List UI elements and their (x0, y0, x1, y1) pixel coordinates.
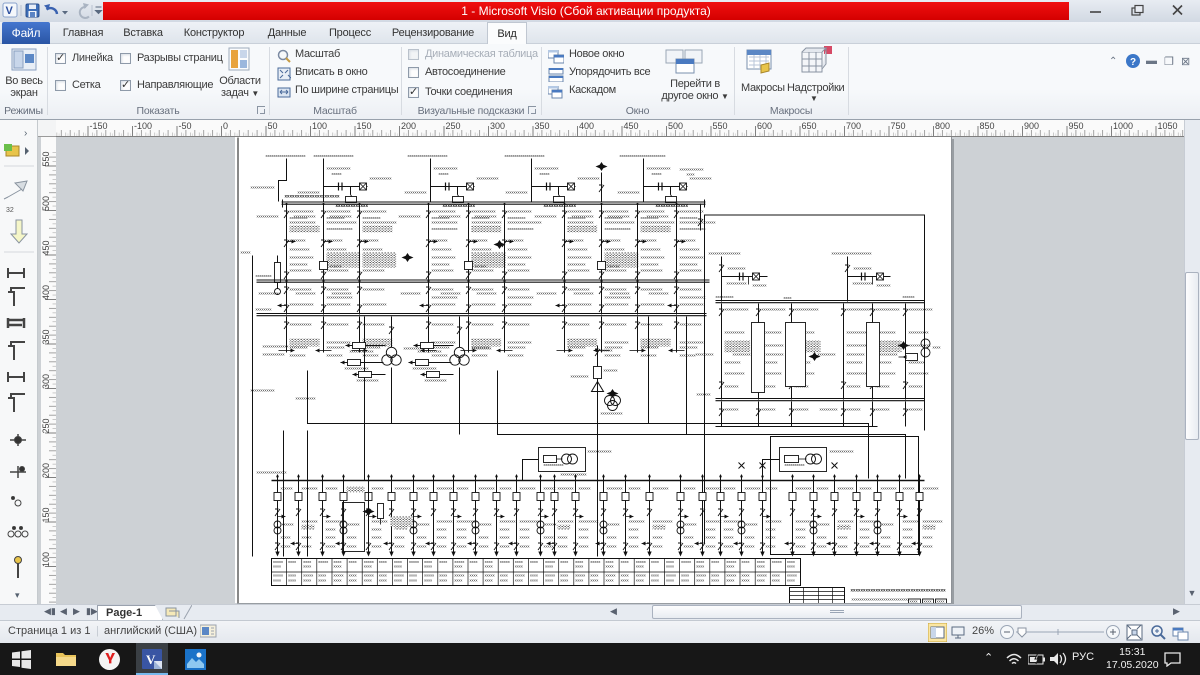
arrester FV2 (402, 253, 414, 262)
outgoing feeder B28 (896, 475, 919, 557)
svg-text:xxxxxxxxxxxxxxxxxxxx: xxxxxxxxxxxxxxxxxxxx (408, 153, 448, 158)
subsystem capacitor branch 1 (719, 257, 768, 302)
arrester FV6 (898, 341, 910, 350)
svg-text:xxxxxxxxx: xxxxxxxxx (508, 262, 526, 267)
subsystem feeder S3 (818, 304, 871, 400)
svg-text:xxxxxxxxxxxxx: xxxxxxxxxxxxx (680, 226, 706, 231)
wire (368, 475, 370, 507)
svg-text:xxxxxxxxxx: xxxxxxxxxx (432, 247, 452, 252)
svg-text:xxxxxx: xxxxxx (348, 522, 360, 527)
svg-text:xxxxxxx: xxxxxxx (847, 384, 861, 389)
subsystem lower feeder SL1 (756, 402, 776, 427)
svg-text:xxxxxxxxxxx: xxxxxxxxxxx (290, 268, 312, 273)
feeder F31 below bus3 (316, 317, 351, 358)
svg-text:xxxx: xxxx (439, 578, 447, 583)
svg-text:xxxx: xxxx (666, 578, 674, 583)
svg-text:xxxxxxxx: xxxxxxxx (472, 353, 488, 358)
feeder F30 below bus3 (279, 317, 320, 358)
svg-text:xxxxx: xxxxx (745, 535, 755, 540)
svg-text:xxxxx: xxxxx (653, 544, 663, 549)
svg-text:xxxxxxxx: xxxxxxxx (881, 486, 897, 491)
svg-text:xxxxxxxxxxxx: xxxxxxxxxxxx (830, 449, 854, 454)
svg-text:xxxxxxxx: xxxxxxxx (605, 238, 621, 243)
svg-text:xxxxx: xxxxx (409, 559, 419, 564)
svg-text:xxxxx: xxxxx (903, 544, 913, 549)
svg-text:xxxxxxxxxxxxxxx: xxxxxxxxxxxxxxx (472, 220, 502, 225)
svg-text:xxxxx: xxxxx (724, 527, 734, 532)
svg-text:0: 0 (223, 121, 228, 131)
svg-text:xxxxxx: xxxxxx (579, 486, 591, 491)
outgoing feeder B23 (785, 475, 816, 557)
svg-text:xxxxxxxxxxx: xxxxxxxxxxx (477, 176, 499, 181)
svg-text:xxxxxxxxxxx: xxxxxxxxxxx (508, 268, 530, 273)
svg-text:xxxx: xxxx (757, 564, 765, 569)
svg-text:xxxxx: xxxxx (766, 527, 776, 532)
capacitor bank CB2 (405, 159, 499, 209)
svg-text:xxxxx: xxxxx (652, 171, 662, 176)
svg-text:xxxxxxxx: xxxxxxxx (903, 519, 919, 524)
svg-text:xxxx: xxxx (318, 578, 326, 583)
svg-text:xxxxxxxxxxxx: xxxxxxxxxxxx (434, 166, 458, 171)
svg-text:xxxxx: xxxxx (772, 559, 782, 564)
bottom bus 0.4kV (272, 480, 925, 482)
svg-text:xxxxxxxx: xxxxxxxx (508, 353, 524, 358)
svg-text:xxxxx: xxxxx (724, 535, 734, 540)
svg-text:xxxxx: xxxxx (681, 559, 691, 564)
svg-text:xxxxxxxxxxxxx: xxxxxxxxxxxxx (508, 226, 534, 231)
big cell frame right (771, 437, 919, 555)
svg-text:xxxxxxxxx: xxxxxxxxx (766, 352, 784, 357)
outgoing feeder B15 (596, 475, 623, 557)
svg-text:xxxxxxxx: xxxxxxxx (508, 238, 524, 243)
svg-text:400: 400 (41, 285, 51, 300)
svg-text:xxxxx: xxxxx (903, 527, 913, 532)
title block (790, 588, 845, 604)
svg-text:xxxxxxxxxxx: xxxxxxxxxxx (568, 268, 590, 273)
feeder F39 below bus3 (669, 317, 704, 358)
svg-text:xxxxxxxxxxx: xxxxxxxxxxx (568, 322, 590, 327)
svg-text:?: ? (1130, 57, 1136, 68)
svg-text:xxxxxxxx: xxxxxxxx (437, 519, 453, 524)
svg-text:xxxx: xxxx (681, 578, 689, 583)
svg-text:xxxx: xxxx (424, 564, 432, 569)
svg-text:xxxxxxxx: xxxxxxxx (568, 353, 584, 358)
svg-text:xxxxxxxxxxxxx: xxxxxxxxxxxxx (432, 226, 458, 231)
transformer T2 branches (409, 317, 463, 383)
svg-text:xxxxx: xxxxx (318, 559, 328, 564)
svg-text:xxxxxxxxxxxx: xxxxxxxxxxxx (251, 185, 275, 190)
svg-text:250: 250 (446, 121, 461, 131)
svg-text:xxxxxxxxxx: xxxxxxxxxx (785, 462, 805, 467)
svg-text:xxxxxxxxx: xxxxxxxxx (568, 345, 586, 350)
svg-text:xxxxxx: xxxxxx (372, 486, 384, 491)
svg-text:xxxxxxxxxxx: xxxxxxxxxxx (641, 268, 663, 273)
svg-text:xxxxxxxx: xxxxxxxx (706, 486, 722, 491)
Визуальные подсказки (408, 49, 419, 60)
svg-text:xxxxx: xxxxx (860, 527, 870, 532)
svg-text:xxxx: xxxx (742, 578, 750, 583)
svg-text:xxxxxx: xxxxxx (500, 486, 512, 491)
svg-text:xxxxxxxxxxxxx: xxxxxxxxxxxxx (327, 226, 353, 231)
Режимы (11, 47, 37, 73)
outgoing feeder B1 (291, 475, 318, 557)
svg-text:xxxxxxx: xxxxxxx (876, 407, 890, 412)
svg-text:xxxxx: xxxxx (653, 535, 663, 540)
outgoing feeder B8 (450, 475, 477, 557)
feeder F36 below bus3 (557, 317, 598, 358)
svg-text:xxxx: xxxx (726, 564, 734, 569)
svg-text:xxxxxxxxxxx: xxxxxxxxxxx (535, 214, 557, 219)
svg-text:xxxxxxxxxxx: xxxxxxxxxxx (680, 322, 702, 327)
svg-text:xxxxx: xxxxx (372, 544, 382, 549)
svg-text:650: 650 (802, 121, 817, 131)
svg-text:xxxxxxxxxx: xxxxxxxxxx (853, 281, 873, 286)
svg-text:xxxxxxxxxxxx: xxxxxxxxxxxx (290, 255, 314, 260)
outgoing feeder B22 (759, 463, 782, 557)
svg-text:xxxxx: xxxxx (590, 559, 600, 564)
svg-text:xxxxxxxxxxxx: xxxxxxxxxxxx (432, 302, 456, 307)
svg-text:xxxxxxxxxxxxxxxxx: xxxxxxxxxxxxxxxxx (641, 220, 675, 225)
svg-text:xxxxxxxxx: xxxxxxxxx (641, 262, 659, 267)
svg-text:xxxxxxxx: xxxxxxxx (838, 519, 854, 524)
svg-text:xxxxxxxxxxxx: xxxxxxxxxxxx (345, 366, 369, 371)
svg-text:xxxxxxxxxxxx: xxxxxxxxxxxx (647, 166, 671, 171)
feeder F18 from bus1 (608, 203, 675, 282)
svg-text:xxxxxxxx: xxxxxxxx (706, 519, 722, 524)
svg-text:xxxx: xxxx (379, 559, 387, 564)
svg-text:xxxxxxxx: xxxxxxxx (629, 519, 645, 524)
svg-text:xxxxxxxxxxx: xxxxxxxxxxx (294, 214, 316, 219)
svg-text:xxxx: xxxx (364, 564, 372, 569)
svg-text:xxxxx: xxxxx (437, 544, 447, 549)
svg-text:xxxx: xxxx (349, 559, 357, 564)
svg-text:xxxxxxxxxxx: xxxxxxxxxxx (572, 214, 594, 219)
group separators (47, 47, 48, 115)
Показать (55, 53, 66, 64)
svg-text:xxxxx: xxxxx (372, 535, 382, 540)
svg-text:xxxxxxxxx: xxxxxxxxx (290, 345, 308, 350)
svg-text:xxxx: xxxx (590, 578, 598, 583)
svg-text:xxxxxxxxxx: xxxxxxxxxx (574, 291, 594, 296)
svg-text:xxxx: xxxx (379, 578, 387, 583)
svg-text:xxxxxxxx: xxxxxxxx (302, 486, 318, 491)
svg-text:xxxxxxxxxxxxxxxxxxxxxx: xxxxxxxxxxxxxxxxxxxxxx (285, 194, 341, 199)
svg-text:xxxxxxxxxxxxx: xxxxxxxxxxxxx (432, 220, 458, 225)
svg-text:xxxxxxx: xxxxxxx (725, 384, 739, 389)
svg-text:xxxxxxxxxxxx: xxxxxxxxxxxx (680, 302, 704, 307)
svg-text:xxxxxx: xxxxxx (326, 486, 338, 491)
feeder F24 bus2-bus3 (441, 283, 496, 315)
subsystem feeder S2 (766, 304, 821, 400)
svg-text:300: 300 (490, 121, 505, 131)
outgoing feeder B2 (319, 475, 346, 557)
svg-text:xxxx: xxxx (530, 559, 538, 564)
svg-text:400: 400 (579, 121, 594, 131)
svg-text:xxxxxxxxx: xxxxxxxxx (847, 352, 865, 357)
svg-text:xxxxxxxxxxx: xxxxxxxxxxx (618, 190, 640, 195)
svg-text:xxxx: xxxx (696, 564, 704, 569)
svg-text:xxxxx: xxxxx (520, 527, 530, 532)
outgoing feeder B21 (734, 463, 761, 557)
svg-text:xxxxx: xxxxx (629, 544, 639, 549)
svg-text:xxxxxxxxxxx: xxxxxxxxxxx (578, 176, 600, 181)
outgoing feeder B16 (622, 475, 645, 557)
svg-text:xxxxxxxxxxxx: xxxxxxxxxxxx (535, 166, 559, 171)
stamp boxes (909, 599, 921, 604)
svg-text:xxxxxxxxxx: xxxxxxxxxx (605, 247, 625, 252)
svg-text:xxxxx: xxxxx (500, 527, 510, 532)
svg-text:xxxxxx: xxxxxx (281, 486, 293, 491)
svg-text:xxxx: xxxx (515, 578, 523, 583)
svg-text:xxxxxxxxxxxx: xxxxxxxxxxxx (909, 307, 933, 312)
svg-text:xxxxxxxxxx: xxxxxxxxxx (680, 247, 700, 252)
shapes sidebar (0, 120, 38, 604)
subsystem lower feeder SL2 (789, 402, 809, 427)
surge arrester FV1 (596, 162, 608, 202)
arrester FV7 (363, 507, 375, 516)
svg-text:xxxxxx: xxxxxx (475, 264, 487, 269)
svg-text:xxxxxxxx: xxxxxxxx (432, 238, 448, 243)
svg-text:xxxxxxxxxxx: xxxxxxxxxxx (601, 411, 623, 416)
svg-text:xxxxxxxxxx: xxxxxxxxxx (508, 247, 528, 252)
svg-text:xxxxx: xxxxx (540, 171, 550, 176)
svg-text:xxxxxxxxxxx: xxxxxxxxxxx (425, 378, 447, 383)
svg-text:xxxxxxxxx: xxxxxxxxx (854, 266, 872, 271)
svg-text:xxxxx: xxxxx (745, 544, 755, 549)
svg-text:xxxxx: xxxxx (500, 535, 510, 540)
Окно (548, 50, 564, 64)
svg-text:xxxxx: xxxxx (457, 535, 467, 540)
svg-text:xxxxx: xxxxx (579, 527, 589, 532)
svg-text:xxxxxxx: xxxxxxx (909, 384, 923, 389)
left verticals (283, 431, 285, 557)
svg-text:xxxxx: xxxxx (706, 544, 716, 549)
svg-text:xxxx: xxxx (515, 564, 523, 569)
svg-text:xxxxxxxx: xxxxxxxx (745, 486, 761, 491)
bus 3 (10kV section II) (257, 314, 707, 316)
svg-text:xxxxxxxxxx: xxxxxxxxxx (290, 247, 310, 252)
svg-text:xxxxxxxxxxxx: xxxxxxxxxxxx (680, 255, 704, 260)
svg-text:xxxxx: xxxxx (706, 535, 716, 540)
svg-text:xxxxxxxxxxx: xxxxxxxxxxx (641, 322, 663, 327)
svg-text:350: 350 (41, 329, 51, 344)
feeder F28 bus2-bus3 (610, 283, 665, 315)
scrollbars (1184, 120, 1200, 612)
svg-text:xxxxxxxxxx: xxxxxxxxxx (332, 291, 352, 296)
svg-text:xxxxxxxxxxx: xxxxxxxxxxx (847, 343, 869, 348)
svg-text:850: 850 (980, 121, 995, 131)
svg-text:xxxxxxx: xxxxxxx (604, 368, 618, 373)
QAT icons (0, 0, 110, 22)
svg-text:xxxxxxxxxx: xxxxxxxxxx (537, 291, 557, 296)
svg-text:200: 200 (401, 121, 416, 131)
svg-text:xxxxxxxxxxx: xxxxxxxxxxx (399, 214, 421, 219)
svg-text:xxxx: xxxx (454, 578, 462, 583)
outgoing feeder B20 (717, 475, 744, 557)
svg-text:xxxxx: xxxxx (629, 527, 639, 532)
svg-text:xxxx: xxxx (787, 564, 795, 569)
Масштаб (277, 49, 291, 63)
svg-text:350: 350 (535, 121, 550, 131)
subsystem lower feeder SL3 (841, 402, 861, 427)
svg-text:xxxxxxxxx: xxxxxxxxx (571, 374, 589, 379)
svg-text:xxxxxxxxxxx: xxxxxxxxxxx (508, 287, 530, 292)
svg-text:xxxxxxxxxxxx: xxxxxxxxxxxx (350, 349, 374, 354)
wire x364 (364, 317, 366, 481)
svg-text:xxxxx: xxxxx (838, 544, 848, 549)
subsystem feeder S0 (696, 304, 751, 400)
feeder F29 bus2-bus3 (649, 283, 706, 315)
svg-text:xxxxxxxxxxxxxxxxxxxxxxxxxxxxx: xxxxxxxxxxxxxxxxxxxxxxxxxxxxx (852, 597, 910, 602)
svg-text:450: 450 (41, 240, 51, 255)
svg-text:xxxxx: xxxxx (923, 544, 933, 549)
svg-text:xxxxxxxxxxxxx: xxxxxxxxxxxxx (605, 226, 631, 231)
svg-text:xxxxx: xxxxx (347, 544, 357, 549)
svg-text:xxxxx: xxxxx (326, 527, 336, 532)
svg-text:xxxxx: xxxxx (579, 544, 589, 549)
svg-text:xxxx: xxxx (409, 578, 417, 583)
outgoing feeder B3 (336, 475, 363, 557)
svg-text:xxxxxxxxxxxx: xxxxxxxxxxxx (795, 307, 819, 312)
transformer T1 branches (341, 317, 395, 383)
svg-text:500: 500 (668, 121, 683, 131)
svg-text:xxxxxxxxxx: xxxxxxxxxx (909, 330, 929, 335)
svg-text:700: 700 (846, 121, 861, 131)
svg-text:xxxxxxxxx: xxxxxxxxx (327, 345, 345, 350)
svg-text:xxxx: xxxx (334, 564, 342, 569)
svg-text:xxxxxxxxxx: xxxxxxxxxx (472, 346, 492, 351)
svg-text:xxxx: xxxx (910, 599, 918, 603)
svg-text:xxxxxxxx: xxxxxxxx (472, 238, 488, 243)
wire x648 (648, 317, 650, 424)
subsystem bus B (716, 398, 925, 400)
svg-text:xxxxxx: xxxxxx (629, 486, 641, 491)
feeder F12 from bus1 (330, 203, 397, 282)
svg-text:xxxxxxxxx: xxxxxxxxx (696, 352, 714, 357)
svg-text:xxxxxxxxxx: xxxxxxxxxx (441, 291, 461, 296)
svg-text:xxxxxxxxxxxx: xxxxxxxxxxxx (432, 255, 456, 260)
svg-text:xxxx: xxxx (696, 578, 704, 583)
svg-text:200: 200 (41, 463, 51, 478)
svg-text:xxxx: xxxx (288, 578, 296, 583)
svg-text:xxxxx: xxxxx (500, 559, 510, 564)
svg-text:xxxxxxxxxxx: xxxxxxxxxxx (327, 322, 349, 327)
svg-text:xxxx: xxxx (303, 564, 311, 569)
feeder F33 below bus3 (421, 317, 456, 358)
svg-text:xxxx: xxxx (711, 578, 719, 583)
taskbar (0, 643, 1200, 675)
svg-text:xxxx: xxxx (439, 559, 447, 564)
svg-text:xxxxxxxxxxx: xxxxxxxxxxx (330, 214, 352, 219)
svg-text:xxxxxx: xxxxxx (418, 522, 430, 527)
svg-text:xxxx: xxxx (288, 559, 296, 564)
svg-text:300: 300 (41, 374, 51, 389)
svg-text:xxxxxxxxx: xxxxxxxxx (432, 262, 450, 267)
T2 secondary wire (459, 368, 461, 435)
svg-text:xxxxxxxxxx: xxxxxxxxxx (401, 291, 421, 296)
svg-text:xxxx: xxxx (485, 578, 493, 583)
svg-text:xxxxx: xxxxx (724, 544, 734, 549)
svg-text:xxxxx: xxxxx (395, 544, 405, 549)
svg-text:xxxxxxxxxxxxx: xxxxxxxxxxxxx (568, 220, 594, 225)
svg-text:xxxxxxxxxxxxxxx: xxxxxxxxxxxxxxx (257, 470, 287, 475)
svg-text:xxxxxxxxxxx: xxxxxxxxxxx (257, 214, 279, 219)
svg-text:xxxxxxxxxxx: xxxxxxxxxxx (605, 322, 627, 327)
svg-text:xxxxxxxxx: xxxxxxxxx (290, 262, 308, 267)
outgoing feeder B18 (677, 475, 697, 557)
svg-text:xxxx: xxxx (726, 578, 734, 583)
svg-text:xxxxxxxxxxx: xxxxxxxxxxx (608, 214, 630, 219)
svg-text:xxxxxxxx: xxxxxxxx (680, 353, 696, 358)
svg-text:xxxxxx: xxxxxx (480, 522, 492, 527)
svg-text:xxxxxxxxxxx: xxxxxxxxxxx (363, 287, 385, 292)
outgoing feeder B11 (509, 475, 540, 557)
svg-text:xxxxxxxx: xxxxxxxx (302, 519, 318, 524)
svg-text:xxxx: xxxx (470, 578, 478, 583)
svg-text:xxxx: xxxx (560, 559, 568, 564)
svg-text:xxxxxxxx: xxxxxxxx (558, 486, 574, 491)
resistor R1 left (275, 256, 281, 295)
svg-text:xxxxx: xxxxx (457, 527, 467, 532)
outgoing feeder B17 (642, 475, 673, 557)
svg-text:xxxxxxx: xxxxxxx (697, 392, 711, 397)
subsystem feeder S5 (880, 304, 933, 400)
svg-text:xxxxxxxxxx: xxxxxxxxxx (641, 247, 661, 252)
svg-text:xxxxxxxxxxxxxxxxxxxx: xxxxxxxxxxxxxxxxxxxx (505, 153, 545, 158)
svg-text:xxxx: xxxx (364, 578, 372, 583)
svg-text:xxxxxxxxxxx: xxxxxxxxxxx (290, 322, 312, 327)
svg-text:xxxxxxxxxxxx: xxxxxxxxxxxx (251, 388, 275, 393)
svg-text:xxxxxxxxxxx: xxxxxxxxxxx (432, 322, 454, 327)
svg-text:600: 600 (757, 121, 772, 131)
svg-text:xxxxx: xxxxx (903, 535, 913, 540)
svg-text:xxxxxxxxxxx: xxxxxxxxxxx (357, 378, 379, 383)
svg-text:xxxxx: xxxxx (281, 535, 291, 540)
svg-text:xxxxxx: xxxxxx (684, 486, 696, 491)
svg-text:750: 750 (891, 121, 906, 131)
feeder F22 bus2-bus3 (332, 283, 387, 315)
svg-text:xxxxx: xxxxx (923, 535, 933, 540)
svg-text:550: 550 (41, 151, 51, 166)
feeder F20 bus2-bus3 (259, 283, 314, 315)
svg-text:xxxx: xxxx (273, 578, 281, 583)
svg-text:xxxx: xxxx (636, 564, 644, 569)
svg-text:xxxx: xxxx (606, 564, 614, 569)
bus 2 (10kV section I) (257, 280, 710, 282)
svg-text:800: 800 (935, 121, 950, 131)
svg-text:xxxx: xxxx (485, 564, 493, 569)
svg-text:xxxxxxxxxx: xxxxxxxxxx (327, 247, 347, 252)
unit box UB2 (763, 448, 854, 481)
feeder F17 from bus1 (572, 203, 639, 282)
svg-text:xxxxxxxxxxxx: xxxxxxxxxxxx (508, 302, 532, 307)
svg-text:xxxxxx: xxxxxx (882, 522, 894, 527)
svg-text:xxxxxxxxxxxx: xxxxxxxxxxxx (876, 307, 900, 312)
svg-text:xxxxxxxxxxxx: xxxxxxxxxxxx (762, 307, 786, 312)
svg-text:xxxx: xxxx (666, 564, 674, 569)
svg-text:xxxxxxxxx: xxxxxxxxx (641, 345, 659, 350)
feeder F25 bus2-bus3 (477, 283, 534, 315)
Макросы (745, 47, 775, 77)
svg-text:xxxxxx: xxxxxx (685, 522, 697, 527)
grounding transformer TN1 (571, 346, 618, 557)
svg-text:xxxxxxxxxxxxxxx: xxxxxxxxxxxxxxx (327, 220, 357, 225)
svg-text:V: V (146, 652, 156, 667)
svg-text:xxxxxxxxxxx: xxxxxxxxxxx (647, 214, 669, 219)
outgoing feeder B26 (853, 475, 880, 557)
svg-text:450: 450 (624, 121, 639, 131)
subsystem lower feeder SL4 (870, 402, 890, 427)
